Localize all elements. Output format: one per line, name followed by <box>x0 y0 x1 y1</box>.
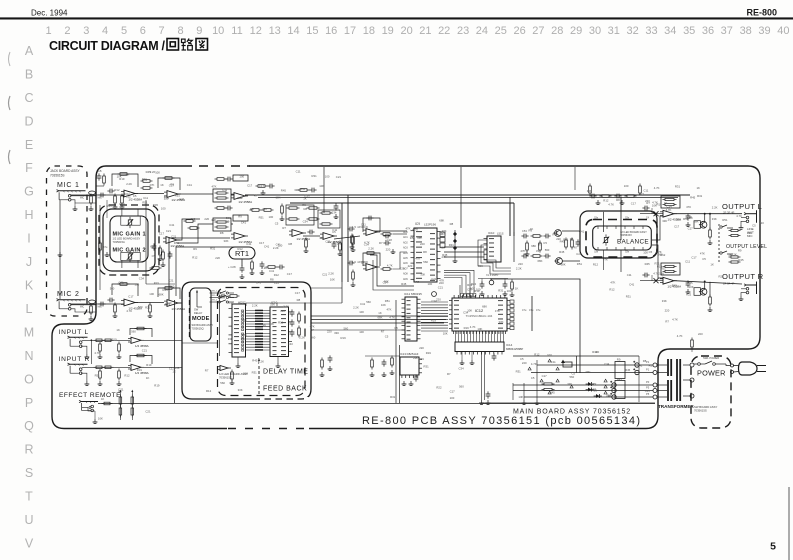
svg-text:560: 560 <box>423 260 428 264</box>
svg-text:220: 220 <box>556 237 561 241</box>
svg-text:R31: R31 <box>449 243 455 247</box>
svg-text:N: N <box>24 349 33 363</box>
svg-text:R45: R45 <box>625 368 631 372</box>
svg-text:560: 560 <box>676 218 681 222</box>
svg-text:10: 10 <box>212 25 224 37</box>
svg-text:IC10: IC10 <box>488 231 495 235</box>
svg-text:MIC: MIC <box>98 198 103 200</box>
svg-text:560: 560 <box>570 375 575 379</box>
svg-text:30: 30 <box>589 25 601 37</box>
svg-text:2.2K: 2.2K <box>328 272 334 276</box>
svg-text:OUTPUT L: OUTPUT L <box>722 202 762 211</box>
svg-text:220: 220 <box>215 256 220 260</box>
svg-text:C11: C11 <box>228 301 233 305</box>
svg-text:4.7K: 4.7K <box>672 317 678 321</box>
svg-text:R7: R7 <box>379 241 383 245</box>
svg-text:AD4: AD4 <box>403 252 408 255</box>
svg-text:10K: 10K <box>124 173 129 177</box>
svg-text:32: 32 <box>626 25 638 37</box>
svg-text:R8: R8 <box>289 242 293 246</box>
svg-text:R9: R9 <box>738 249 742 253</box>
svg-text:R31: R31 <box>390 395 396 399</box>
svg-text:R51: R51 <box>661 267 667 271</box>
svg-text:MIC: MIC <box>80 307 85 309</box>
svg-text:R19: R19 <box>464 326 470 330</box>
svg-text:21: 21 <box>419 25 431 37</box>
svg-text:560: 560 <box>220 381 225 385</box>
svg-text:10K: 10K <box>477 327 482 331</box>
svg-text:R7: R7 <box>205 369 209 373</box>
svg-text:R22: R22 <box>165 302 171 306</box>
svg-text:37: 37 <box>721 25 733 37</box>
svg-text:47K: 47K <box>603 258 608 262</box>
svg-text:10K: 10K <box>330 278 335 282</box>
svg-text:47K: 47K <box>415 257 420 261</box>
svg-text:R51: R51 <box>683 217 689 221</box>
svg-text:U: U <box>24 513 33 527</box>
svg-text:7035615S: 7035615S <box>694 409 707 413</box>
svg-text:R12: R12 <box>206 389 212 393</box>
svg-text:2.2K: 2.2K <box>464 292 470 296</box>
svg-text:220: 220 <box>665 309 670 313</box>
svg-text:R19: R19 <box>426 351 432 355</box>
svg-text:560: 560 <box>545 248 550 252</box>
svg-text:R9: R9 <box>226 219 230 223</box>
svg-text:C5: C5 <box>275 221 279 225</box>
svg-text:68K: 68K <box>561 263 566 267</box>
svg-text:C17: C17 <box>450 390 456 394</box>
svg-text:R9: R9 <box>529 228 533 232</box>
svg-text:68K: 68K <box>482 305 487 309</box>
svg-text:2.2K: 2.2K <box>283 305 289 309</box>
svg-text:2.2K: 2.2K <box>516 267 522 271</box>
svg-text:+C18: +C18 <box>385 238 392 242</box>
svg-text:R19: R19 <box>119 177 125 181</box>
svg-text:100: 100 <box>450 396 455 400</box>
svg-text:5: 5 <box>770 541 776 553</box>
svg-text:C41: C41 <box>246 242 252 246</box>
svg-text:R19: R19 <box>119 202 125 206</box>
svg-text:R9: R9 <box>608 394 612 398</box>
svg-text:R51: R51 <box>586 370 592 374</box>
svg-text:D: D <box>24 114 33 128</box>
svg-text:9: 9 <box>196 25 202 37</box>
svg-text:7035615S: 7035615S <box>50 174 65 178</box>
svg-text:33K: 33K <box>662 219 667 223</box>
svg-text:C11: C11 <box>361 222 366 226</box>
svg-text:R19: R19 <box>431 318 437 322</box>
svg-text:220: 220 <box>327 329 332 333</box>
svg-text:C: C <box>24 91 33 105</box>
svg-text:35: 35 <box>683 25 695 37</box>
svg-text:68K: 68K <box>150 245 155 249</box>
svg-text:13: 13 <box>269 25 281 37</box>
svg-text:C5: C5 <box>531 376 535 380</box>
svg-text:V: V <box>25 537 34 551</box>
svg-text:220: 220 <box>386 248 391 252</box>
svg-text:R12: R12 <box>278 320 284 324</box>
svg-text:L: L <box>26 302 33 316</box>
svg-text:33K: 33K <box>478 264 483 268</box>
svg-text:1/2 4558A: 1/2 4558A <box>296 237 310 241</box>
svg-text:B: B <box>25 68 33 82</box>
svg-text:2.2K: 2.2K <box>368 247 374 251</box>
svg-text:C21: C21 <box>171 235 177 239</box>
svg-text:R45: R45 <box>146 170 152 174</box>
svg-text:47K: 47K <box>212 184 217 188</box>
svg-text:R12: R12 <box>609 288 615 292</box>
svg-text:R8: R8 <box>450 222 454 226</box>
svg-text:4.7K: 4.7K <box>591 382 597 386</box>
svg-text:C34: C34 <box>463 311 469 315</box>
svg-text:R12: R12 <box>603 199 609 203</box>
svg-text:R7: R7 <box>416 280 420 284</box>
svg-text:C21: C21 <box>145 409 151 413</box>
svg-text:K: K <box>25 279 34 293</box>
svg-text:C8n: C8n <box>594 218 599 220</box>
svg-text:560: 560 <box>170 284 175 288</box>
svg-text:10K: 10K <box>98 416 103 420</box>
svg-text:33K: 33K <box>413 356 418 360</box>
svg-text:R12: R12 <box>534 353 540 357</box>
svg-text:FEED BACK: FEED BACK <box>263 386 307 393</box>
svg-text:4.7K: 4.7K <box>126 309 132 313</box>
svg-text:560: 560 <box>243 371 248 375</box>
svg-text:68K: 68K <box>694 220 699 224</box>
svg-text:100: 100 <box>624 184 629 188</box>
svg-text:47K: 47K <box>495 309 500 313</box>
svg-text:X1 4.1MHz: X1 4.1MHz <box>486 274 499 277</box>
svg-text:R45: R45 <box>163 288 169 292</box>
svg-text:7035615X: 7035615X <box>219 376 232 380</box>
svg-text:R7: R7 <box>665 320 669 324</box>
svg-text:47u: 47u <box>522 308 527 312</box>
svg-text:C11: C11 <box>627 273 632 277</box>
svg-text:R7: R7 <box>447 372 451 376</box>
svg-text:R31: R31 <box>241 337 247 341</box>
svg-text:68K: 68K <box>417 235 422 239</box>
svg-text:R51: R51 <box>410 236 416 240</box>
svg-text:RE-800: RE-800 <box>747 8 778 18</box>
svg-text:R19: R19 <box>474 289 480 293</box>
svg-text:DELAY: DELAY <box>194 311 203 315</box>
svg-text:7035615Q: 7035615Q <box>192 326 204 330</box>
svg-text:R7: R7 <box>282 226 286 230</box>
svg-text:2.2K: 2.2K <box>252 304 258 308</box>
svg-text:16: 16 <box>325 25 337 37</box>
svg-text:100: 100 <box>239 174 244 178</box>
svg-text:1K: 1K <box>160 183 164 187</box>
svg-text:C34: C34 <box>139 276 145 280</box>
svg-text:R31: R31 <box>142 178 148 182</box>
svg-text:68K: 68K <box>159 292 164 296</box>
svg-text:4.7K: 4.7K <box>736 214 742 218</box>
svg-text:C41: C41 <box>629 282 635 286</box>
svg-text:Dec. 1994: Dec. 1994 <box>31 9 68 18</box>
svg-text:C5: C5 <box>520 357 524 361</box>
svg-text:40: 40 <box>777 25 789 37</box>
svg-text:47K: 47K <box>686 205 691 209</box>
svg-text:10K: 10K <box>443 332 448 336</box>
svg-text:R19: R19 <box>112 337 118 341</box>
svg-text:R8: R8 <box>270 277 274 281</box>
svg-text:10K: 10K <box>381 303 386 307</box>
svg-text:220: 220 <box>439 281 444 285</box>
svg-text:AD1: AD1 <box>403 236 408 239</box>
svg-text:C5: C5 <box>649 250 653 254</box>
svg-text:R22: R22 <box>471 282 477 286</box>
svg-text:C17: C17 <box>542 374 548 378</box>
svg-text:33K: 33K <box>270 302 275 306</box>
svg-text:MIC 1: MIC 1 <box>57 182 80 189</box>
svg-text:C17: C17 <box>674 225 680 229</box>
svg-text:1K: 1K <box>710 262 714 266</box>
svg-text:C5: C5 <box>385 335 389 339</box>
svg-text:R31: R31 <box>626 294 632 298</box>
svg-text:R45: R45 <box>690 196 696 200</box>
svg-text:R45: R45 <box>281 188 287 192</box>
svg-text:2.2K: 2.2K <box>126 182 132 186</box>
svg-text:R8: R8 <box>616 198 620 202</box>
svg-text:TC25SC180AU-104: TC25SC180AU-104 <box>466 314 493 318</box>
svg-text:IC11 M50195: IC11 M50195 <box>404 292 422 296</box>
svg-text:L51S: L51S <box>497 232 504 236</box>
svg-text:4.7K: 4.7K <box>608 202 614 206</box>
svg-text:C5: C5 <box>543 241 547 245</box>
svg-text:MIC 2: MIC 2 <box>57 291 80 298</box>
svg-text:IC9: IC9 <box>415 222 420 226</box>
svg-text:22: 22 <box>438 25 450 37</box>
svg-text:220: 220 <box>436 298 441 302</box>
svg-text:C21: C21 <box>168 279 174 283</box>
svg-text:C11: C11 <box>685 260 690 264</box>
svg-text:1K: 1K <box>697 186 701 190</box>
svg-text:C34: C34 <box>303 219 309 223</box>
svg-text:33K: 33K <box>294 188 299 192</box>
svg-text:P: P <box>25 396 33 410</box>
svg-text:INPUT L: INPUT L <box>59 329 89 336</box>
svg-text:47K: 47K <box>700 252 705 256</box>
svg-text:4.7K: 4.7K <box>389 315 395 319</box>
svg-text:11: 11 <box>231 25 242 37</box>
svg-text:R51: R51 <box>722 218 728 222</box>
svg-text:100: 100 <box>359 310 364 314</box>
svg-text:33K: 33K <box>238 388 243 392</box>
svg-text:100: 100 <box>135 283 140 287</box>
svg-text:SW1-2: SW1-2 <box>211 300 218 302</box>
svg-text:A: A <box>25 44 34 58</box>
svg-text:AD0: AD0 <box>403 231 408 234</box>
svg-text:47u: 47u <box>536 308 541 312</box>
svg-text:OUTPUT R: OUTPUT R <box>722 272 764 281</box>
svg-text:R7: R7 <box>538 243 542 247</box>
svg-text:C34: C34 <box>431 299 437 303</box>
svg-text:4.7K: 4.7K <box>677 334 683 338</box>
svg-text:C11: C11 <box>169 366 174 370</box>
svg-text:R51: R51 <box>174 241 180 245</box>
svg-text:C5: C5 <box>572 372 576 376</box>
svg-text:AD8: AD8 <box>403 273 408 276</box>
svg-text:R12: R12 <box>124 373 130 377</box>
svg-text:27: 27 <box>532 25 544 37</box>
svg-text:100: 100 <box>337 241 342 245</box>
svg-text:23: 23 <box>457 25 469 37</box>
svg-text:4.7K: 4.7K <box>387 263 393 267</box>
svg-text:4.7K: 4.7K <box>412 227 418 231</box>
svg-text:MIC: MIC <box>98 307 103 309</box>
svg-text:C41: C41 <box>361 261 367 265</box>
svg-text:AD5: AD5 <box>403 257 408 260</box>
svg-text:6: 6 <box>140 25 146 37</box>
svg-text:C5: C5 <box>118 389 122 393</box>
svg-text:8: 8 <box>177 25 183 37</box>
svg-text:1K: 1K <box>664 201 668 205</box>
svg-text:C21: C21 <box>179 197 185 201</box>
svg-text:68K: 68K <box>378 316 383 320</box>
svg-text:C21: C21 <box>431 277 437 281</box>
svg-text:C11: C11 <box>296 170 301 174</box>
svg-text:RE-800 PCB ASSY 70356151 (pcb: RE-800 PCB ASSY 70356151 (pcb 00565134) <box>362 415 641 427</box>
svg-text:220: 220 <box>518 262 523 266</box>
svg-text:31: 31 <box>608 25 620 37</box>
svg-text:C17: C17 <box>287 272 293 276</box>
svg-text:7: 7 <box>159 25 165 37</box>
svg-text:DELAY TIME: DELAY TIME <box>263 369 308 376</box>
svg-text:R8: R8 <box>220 231 224 235</box>
svg-text:4.7K: 4.7K <box>531 362 537 366</box>
svg-text:220: 220 <box>408 264 413 268</box>
svg-text:R22: R22 <box>719 275 725 279</box>
svg-text:1K: 1K <box>146 376 150 380</box>
svg-text:OUTPUT LEVEL: OUTPUT LEVEL <box>726 244 767 250</box>
svg-text:220: 220 <box>419 346 424 350</box>
svg-text:C34: C34 <box>604 362 610 366</box>
svg-text:C41: C41 <box>256 280 262 284</box>
svg-text:100: 100 <box>547 353 552 357</box>
svg-text:R9: R9 <box>193 247 197 251</box>
svg-text:R31: R31 <box>697 194 703 198</box>
svg-text:MB844256BP: MB844256BP <box>506 347 523 351</box>
svg-text:560: 560 <box>191 217 196 221</box>
svg-text:33: 33 <box>645 25 657 37</box>
svg-text:C5: C5 <box>593 389 597 393</box>
svg-text:R31: R31 <box>498 288 504 292</box>
svg-text:560: 560 <box>138 305 143 309</box>
svg-text:10K: 10K <box>319 184 324 188</box>
svg-text:R8: R8 <box>297 298 301 302</box>
svg-text:C41: C41 <box>169 223 175 227</box>
svg-text:C17: C17 <box>128 295 134 299</box>
svg-text:47K: 47K <box>387 307 392 311</box>
svg-text:2.2K: 2.2K <box>261 266 267 270</box>
svg-text:P0: P0 <box>646 380 650 384</box>
svg-text:47K: 47K <box>149 183 154 187</box>
svg-text:68K: 68K <box>439 219 444 223</box>
svg-text:R31: R31 <box>312 174 318 178</box>
svg-text:R22: R22 <box>125 192 131 196</box>
svg-text:R12: R12 <box>238 247 244 251</box>
svg-text:SW1-1: SW1-1 <box>211 291 218 293</box>
svg-text:R45: R45 <box>401 282 407 286</box>
svg-text:R51: R51 <box>440 245 446 249</box>
svg-text:47K: 47K <box>310 325 315 329</box>
svg-text:R12: R12 <box>593 263 599 267</box>
svg-text:R7: R7 <box>254 193 258 197</box>
svg-text:4: 4 <box>102 25 108 37</box>
svg-text:C17: C17 <box>688 227 694 231</box>
svg-text:R8: R8 <box>570 237 574 241</box>
svg-text:R19: R19 <box>419 357 425 361</box>
svg-text:SW1-1: SW1-1 <box>211 295 218 297</box>
svg-text:220: 220 <box>262 207 267 211</box>
svg-text:P1: P1 <box>646 368 650 372</box>
svg-text:R19: R19 <box>341 336 347 340</box>
svg-text:R51: R51 <box>577 262 583 266</box>
svg-text:4.7K: 4.7K <box>656 250 662 254</box>
svg-text:C17: C17 <box>169 183 175 187</box>
svg-text:1/2 4558A: 1/2 4558A <box>238 200 252 204</box>
svg-text:C11: C11 <box>643 188 648 192</box>
svg-text:R45: R45 <box>645 262 651 266</box>
svg-text:220: 220 <box>204 217 209 221</box>
svg-text:5: 5 <box>121 25 127 37</box>
svg-text:C21: C21 <box>438 285 444 289</box>
svg-text:2.2K: 2.2K <box>258 360 264 364</box>
svg-text:C8n: C8n <box>625 218 630 220</box>
svg-text:R22: R22 <box>436 386 442 390</box>
svg-text:18: 18 <box>363 25 375 37</box>
svg-text:C17: C17 <box>247 183 253 187</box>
svg-text:C21: C21 <box>325 239 331 243</box>
svg-text:20: 20 <box>400 25 412 37</box>
svg-text:100: 100 <box>161 206 166 210</box>
svg-text:4.7K: 4.7K <box>654 186 660 190</box>
svg-text:AD3: AD3 <box>403 247 408 250</box>
svg-text:17: 17 <box>344 25 356 37</box>
svg-text:C17: C17 <box>159 232 165 236</box>
svg-text:EFFECT REMOTE: EFFECT REMOTE <box>59 392 121 399</box>
svg-text:33K: 33K <box>211 218 216 222</box>
svg-text:4.7K: 4.7K <box>94 351 100 355</box>
svg-text:R8: R8 <box>250 207 254 211</box>
svg-text:R8: R8 <box>270 322 274 326</box>
svg-text:R45: R45 <box>738 258 744 262</box>
svg-text:C5: C5 <box>752 223 756 227</box>
svg-text:C34: C34 <box>383 281 389 285</box>
svg-text:68K: 68K <box>538 259 543 263</box>
svg-text:19: 19 <box>382 25 394 37</box>
svg-text:C11: C11 <box>551 360 556 364</box>
svg-text:33K: 33K <box>224 239 229 243</box>
svg-text:C34: C34 <box>300 187 306 191</box>
svg-text:C21: C21 <box>336 175 342 179</box>
svg-text:R51: R51 <box>649 364 655 368</box>
svg-text:100: 100 <box>507 289 512 293</box>
svg-text:560: 560 <box>344 326 349 330</box>
svg-text:10K: 10K <box>518 395 523 399</box>
svg-text:R51: R51 <box>95 374 101 378</box>
svg-text:C17: C17 <box>295 291 301 295</box>
svg-text:C41: C41 <box>276 242 282 246</box>
svg-text:2.2K: 2.2K <box>353 306 359 310</box>
svg-text:+ C28: + C28 <box>228 265 236 269</box>
svg-text:100: 100 <box>155 171 160 175</box>
svg-text:560: 560 <box>131 330 136 334</box>
svg-text:R7: R7 <box>381 329 385 333</box>
svg-text:J: J <box>26 255 32 269</box>
svg-text:R8: R8 <box>423 250 427 254</box>
svg-text:R31: R31 <box>516 370 522 374</box>
